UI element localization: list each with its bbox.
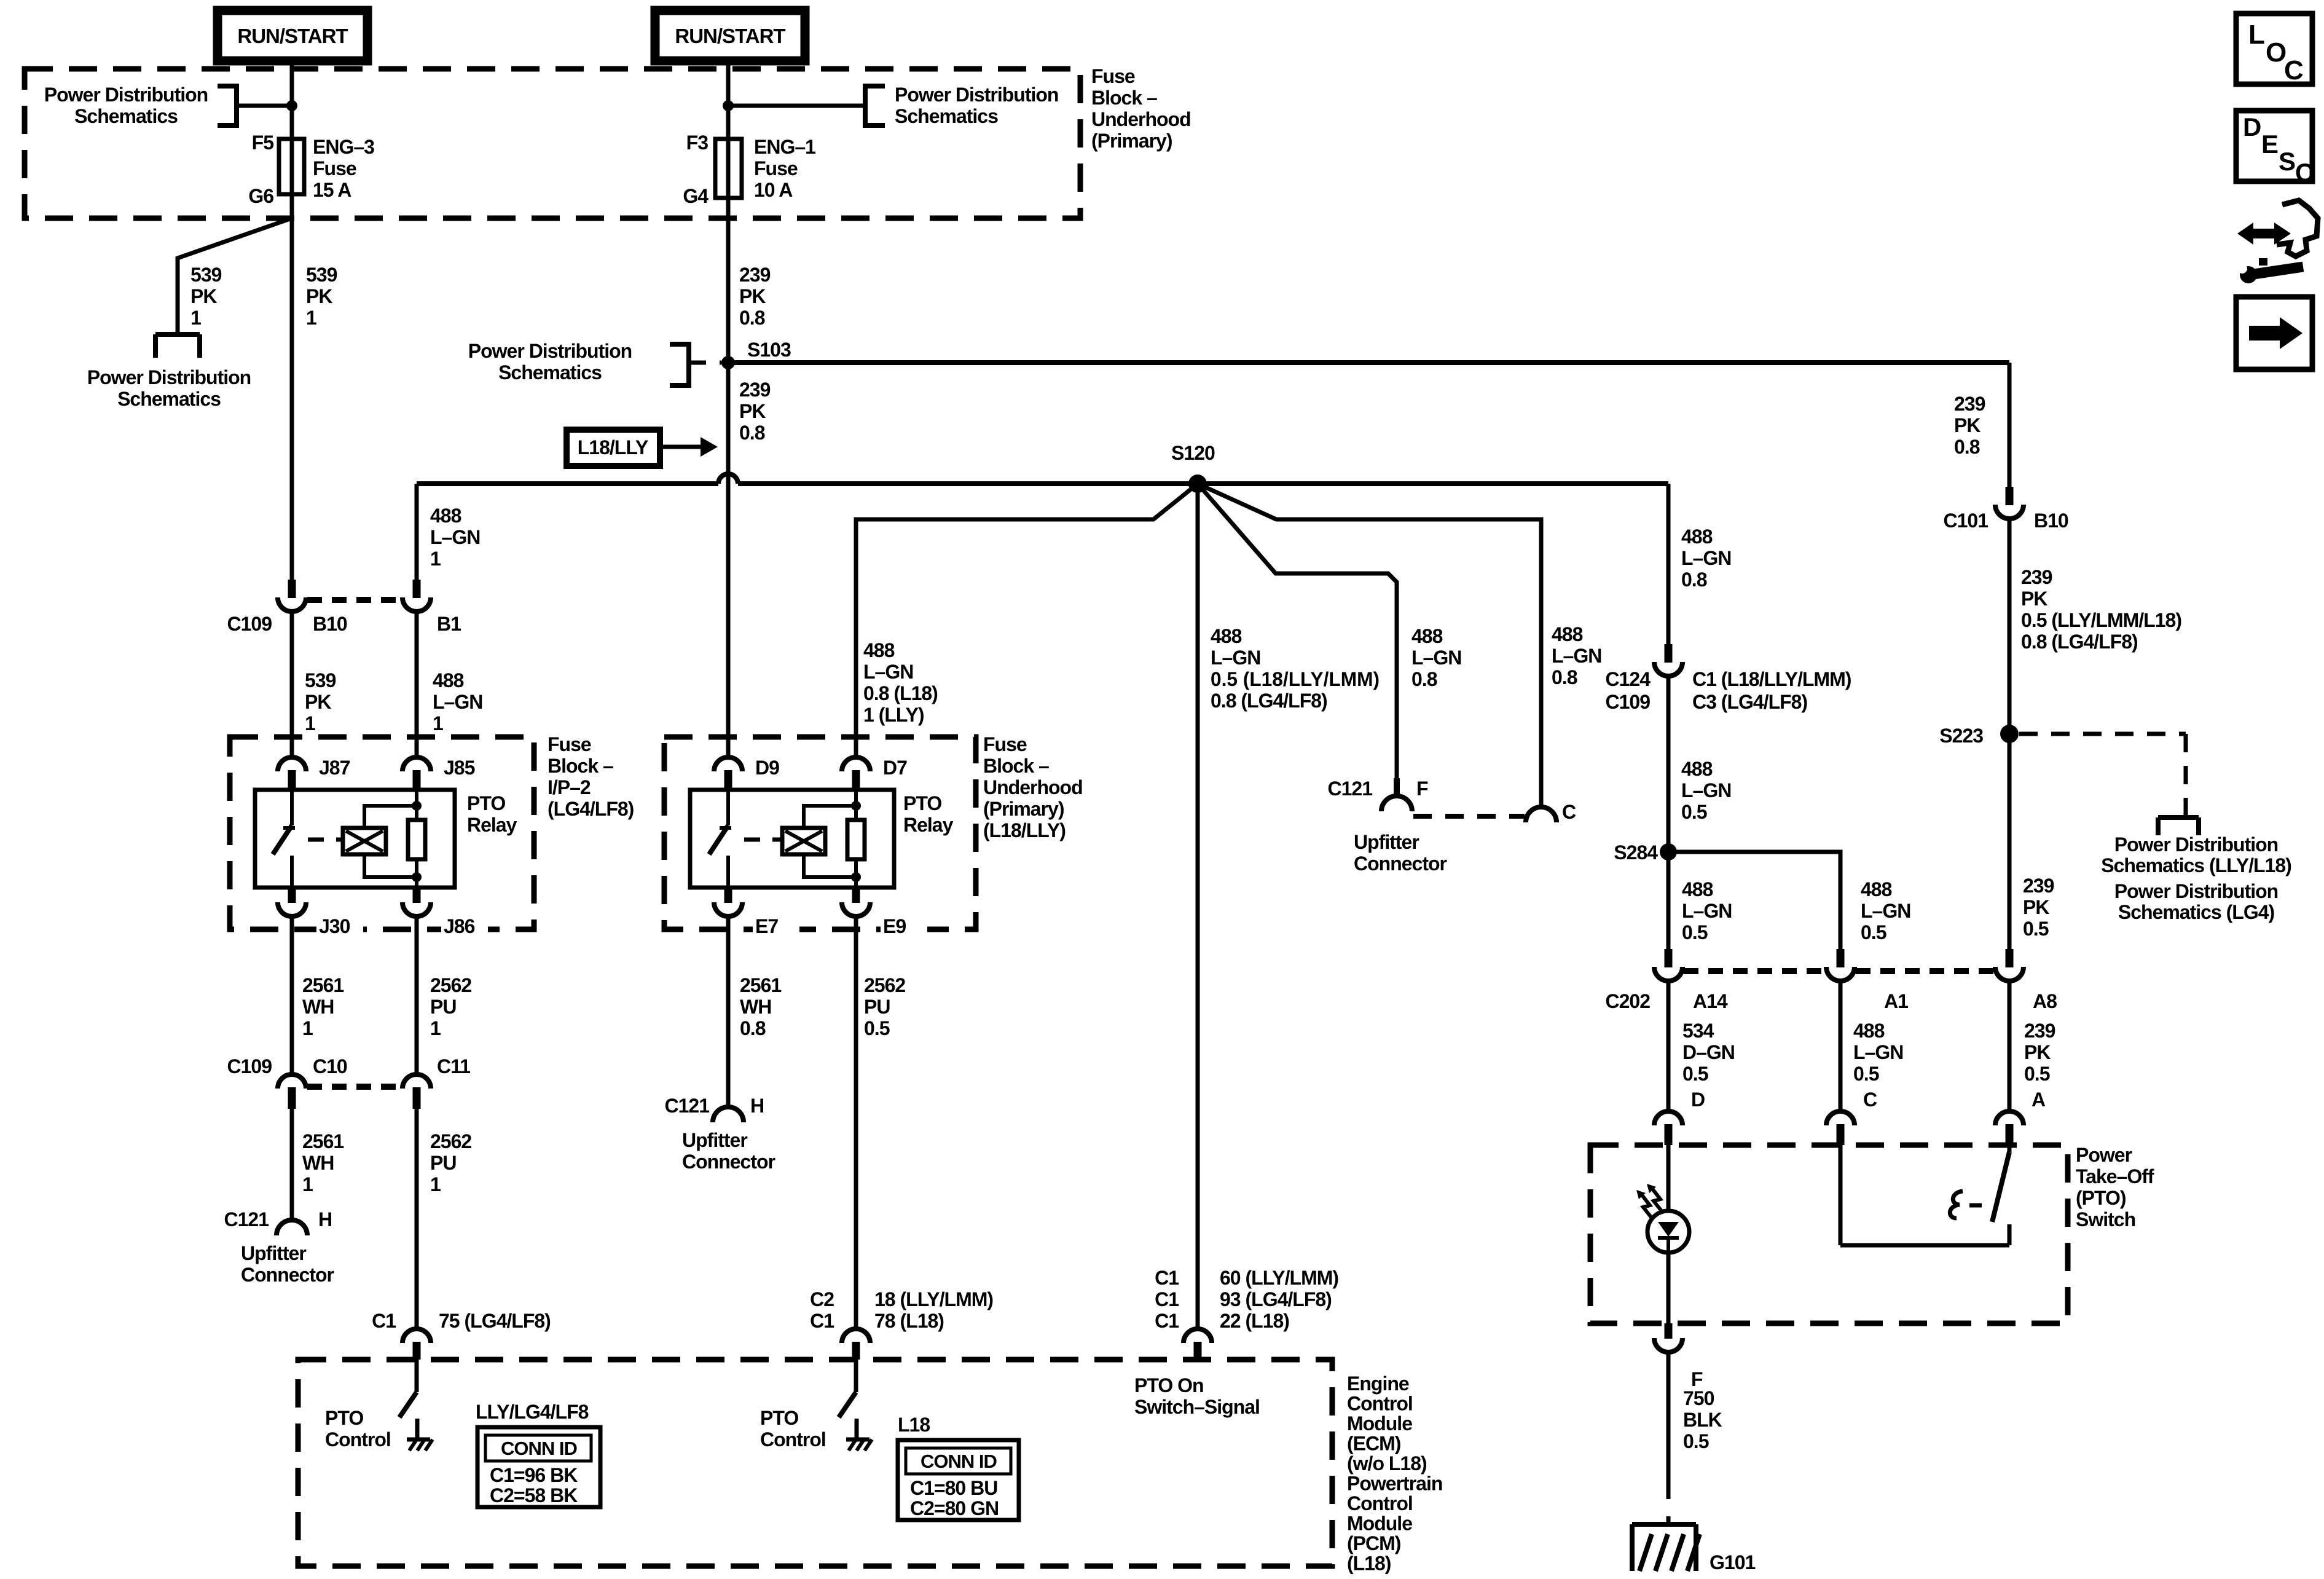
svg-text:J86: J86 bbox=[444, 915, 475, 937]
svg-text:Fuse: Fuse bbox=[983, 733, 1027, 755]
svg-text:1: 1 bbox=[433, 712, 443, 734]
svg-text:1: 1 bbox=[305, 712, 315, 734]
svg-text:0.8: 0.8 bbox=[1411, 668, 1437, 690]
svg-text:L–GN: L–GN bbox=[433, 691, 482, 713]
svg-text:B10: B10 bbox=[313, 613, 347, 635]
svg-text:C1 (L18/LLY/LMM): C1 (L18/LLY/LMM) bbox=[1692, 668, 1851, 690]
svg-text:1 (LLY): 1 (LLY) bbox=[863, 704, 924, 726]
svg-text:C: C bbox=[1863, 1089, 1877, 1111]
svg-text:CONN ID: CONN ID bbox=[501, 1438, 578, 1459]
svg-text:Fuse: Fuse bbox=[548, 733, 591, 755]
svg-text:488: 488 bbox=[1211, 625, 1242, 647]
svg-text:L–GN: L–GN bbox=[1411, 647, 1461, 669]
svg-text:PTO: PTO bbox=[760, 1407, 798, 1429]
svg-text:Fuse: Fuse bbox=[1091, 65, 1135, 87]
svg-text:J85: J85 bbox=[444, 757, 475, 779]
svg-text:239: 239 bbox=[2024, 1020, 2055, 1042]
svg-text:2562: 2562 bbox=[430, 974, 471, 996]
svg-text:L–GN: L–GN bbox=[1861, 900, 1910, 922]
svg-text:Module: Module bbox=[1347, 1513, 1412, 1535]
svg-text:Schematics: Schematics bbox=[498, 361, 602, 384]
svg-text:18 (LLY/LMM): 18 (LLY/LMM) bbox=[874, 1288, 993, 1310]
svg-text:239: 239 bbox=[739, 379, 771, 401]
svg-text:75 (LG4/LF8): 75 (LG4/LF8) bbox=[439, 1310, 551, 1332]
svg-text:1: 1 bbox=[306, 307, 316, 329]
svg-text:488: 488 bbox=[1681, 526, 1713, 548]
svg-text:PK: PK bbox=[2024, 1041, 2051, 1063]
svg-text:PK: PK bbox=[190, 285, 217, 307]
svg-text:Upfitter: Upfitter bbox=[241, 1242, 306, 1264]
svg-text:H: H bbox=[750, 1095, 764, 1117]
svg-text:(PCM): (PCM) bbox=[1347, 1532, 1401, 1554]
svg-text:0.5: 0.5 bbox=[1681, 801, 1707, 823]
svg-text:L–GN: L–GN bbox=[1682, 900, 1732, 922]
svg-text:Control: Control bbox=[760, 1428, 826, 1451]
svg-text:Underhood: Underhood bbox=[1091, 108, 1191, 130]
svg-text:C121: C121 bbox=[1328, 778, 1373, 800]
svg-text:A1: A1 bbox=[1884, 990, 1908, 1012]
svg-text:Take–Off: Take–Off bbox=[2076, 1165, 2154, 1187]
svg-text:L–GN: L–GN bbox=[1681, 547, 1731, 569]
svg-text:PK: PK bbox=[739, 400, 766, 422]
svg-text:PU: PU bbox=[430, 996, 456, 1018]
svg-text:LLY/LG4/LF8: LLY/LG4/LF8 bbox=[476, 1401, 589, 1423]
svg-text:PK: PK bbox=[1954, 414, 1981, 436]
svg-text:C11: C11 bbox=[437, 1055, 470, 1077]
svg-text:S223: S223 bbox=[1939, 725, 1983, 747]
svg-text:(Primary): (Primary) bbox=[1091, 130, 1172, 152]
svg-text:F: F bbox=[1416, 778, 1428, 800]
svg-text:Connector: Connector bbox=[1354, 853, 1447, 875]
svg-text:10 A: 10 A bbox=[754, 179, 793, 201]
svg-text:2562: 2562 bbox=[864, 974, 905, 996]
svg-text:PU: PU bbox=[864, 996, 890, 1018]
svg-text:93 (LG4/LF8): 93 (LG4/LF8) bbox=[1220, 1288, 1332, 1310]
svg-text:Schematics: Schematics bbox=[74, 105, 178, 127]
svg-text:Schematics (LLY/L18): Schematics (LLY/L18) bbox=[2101, 854, 2291, 876]
svg-text:C1=80 BU: C1=80 BU bbox=[910, 1477, 997, 1499]
svg-text:Switch: Switch bbox=[2076, 1208, 2135, 1231]
svg-text:C2=80 GN: C2=80 GN bbox=[910, 1497, 999, 1519]
svg-text:RUN/START: RUN/START bbox=[675, 25, 785, 47]
svg-text:RUN/START: RUN/START bbox=[237, 25, 348, 47]
svg-text:Switch–Signal: Switch–Signal bbox=[1134, 1396, 1260, 1418]
svg-text:C109: C109 bbox=[1606, 691, 1651, 713]
svg-text:CONN ID: CONN ID bbox=[921, 1451, 997, 1472]
svg-text:PU: PU bbox=[430, 1152, 456, 1174]
svg-text:D9: D9 bbox=[755, 757, 779, 779]
svg-text:488: 488 bbox=[1853, 1020, 1885, 1042]
svg-text:488: 488 bbox=[430, 505, 461, 527]
svg-text:2561: 2561 bbox=[740, 974, 781, 996]
svg-text:C1: C1 bbox=[372, 1310, 396, 1332]
svg-text:C1: C1 bbox=[1155, 1267, 1179, 1289]
svg-text:750: 750 bbox=[1683, 1387, 1714, 1409]
svg-text:B10: B10 bbox=[2034, 510, 2068, 532]
svg-text:Relay: Relay bbox=[903, 814, 954, 836]
svg-text:Upfitter: Upfitter bbox=[682, 1129, 747, 1151]
svg-text:Block –: Block – bbox=[548, 755, 613, 777]
svg-text:0.5 (L18/LLY/LMM): 0.5 (L18/LLY/LMM) bbox=[1211, 668, 1380, 690]
svg-text:2562: 2562 bbox=[430, 1130, 471, 1152]
svg-text:(L18): (L18) bbox=[1347, 1553, 1391, 1575]
svg-text:PK: PK bbox=[2023, 896, 2049, 918]
svg-text:534: 534 bbox=[1682, 1020, 1714, 1042]
svg-text:Connector: Connector bbox=[241, 1264, 334, 1286]
svg-text:1: 1 bbox=[302, 1017, 313, 1039]
svg-text:239: 239 bbox=[2021, 566, 2052, 588]
svg-text:L–GN: L–GN bbox=[863, 661, 913, 683]
svg-text:488: 488 bbox=[1681, 758, 1713, 780]
svg-text:488: 488 bbox=[863, 639, 895, 661]
svg-text:G6: G6 bbox=[248, 185, 273, 207]
svg-text:(w/o L18): (w/o L18) bbox=[1347, 1452, 1427, 1475]
svg-text:D–GN: D–GN bbox=[1682, 1041, 1735, 1063]
svg-text:Underhood: Underhood bbox=[983, 776, 1083, 798]
svg-text:PTO On: PTO On bbox=[1134, 1374, 1204, 1396]
svg-text:0.5: 0.5 bbox=[1682, 1063, 1708, 1085]
svg-text:C124: C124 bbox=[1606, 668, 1651, 690]
svg-text:1: 1 bbox=[190, 307, 201, 329]
svg-text:488: 488 bbox=[1682, 878, 1713, 900]
svg-text:G4: G4 bbox=[683, 185, 709, 207]
svg-text:L18/LLY: L18/LLY bbox=[578, 436, 648, 459]
svg-text:I/P–2: I/P–2 bbox=[548, 776, 591, 798]
svg-text:0.5: 0.5 bbox=[1682, 921, 1708, 943]
svg-text:Power: Power bbox=[2076, 1144, 2132, 1166]
svg-text:488: 488 bbox=[1552, 623, 1583, 645]
svg-text:C121: C121 bbox=[665, 1095, 710, 1117]
svg-text:L–GN: L–GN bbox=[1853, 1041, 1903, 1063]
svg-text:Power Distribution: Power Distribution bbox=[895, 84, 1058, 106]
svg-text:Power Distribution: Power Distribution bbox=[2114, 880, 2278, 902]
svg-text:PTO: PTO bbox=[467, 792, 505, 814]
svg-text:L–GN: L–GN bbox=[1552, 645, 1601, 667]
svg-text:C1: C1 bbox=[1155, 1288, 1179, 1310]
svg-text:0.5: 0.5 bbox=[2023, 918, 2049, 940]
svg-text:Upfitter: Upfitter bbox=[1354, 831, 1419, 853]
svg-text:L–GN: L–GN bbox=[1211, 647, 1260, 669]
svg-text:(ECM): (ECM) bbox=[1347, 1433, 1401, 1455]
svg-text:F5: F5 bbox=[252, 132, 274, 154]
svg-text:0.8 (LG4/LF8): 0.8 (LG4/LF8) bbox=[2021, 631, 2138, 653]
svg-text:539: 539 bbox=[305, 669, 336, 691]
svg-text:Powertrain: Powertrain bbox=[1347, 1473, 1442, 1495]
svg-text:S120: S120 bbox=[1171, 442, 1215, 464]
svg-text:0.8: 0.8 bbox=[740, 1017, 766, 1039]
svg-text:Power Distribution: Power Distribution bbox=[87, 366, 251, 388]
svg-text:PK: PK bbox=[306, 285, 332, 307]
svg-text:E7: E7 bbox=[755, 915, 778, 937]
svg-text:C10: C10 bbox=[313, 1055, 347, 1077]
svg-text:60 (LLY/LMM): 60 (LLY/LMM) bbox=[1220, 1267, 1338, 1289]
svg-text:S284: S284 bbox=[1614, 841, 1658, 864]
svg-text:O: O bbox=[2266, 37, 2286, 68]
svg-text:C2=58 BK: C2=58 BK bbox=[490, 1484, 578, 1506]
svg-text:0.8 (LG4/LF8): 0.8 (LG4/LF8) bbox=[1211, 690, 1327, 712]
svg-text:C121: C121 bbox=[224, 1208, 269, 1231]
svg-text:Power Distribution: Power Distribution bbox=[44, 84, 208, 106]
svg-text:0.5: 0.5 bbox=[1861, 921, 1886, 943]
svg-text:Control: Control bbox=[1347, 1393, 1413, 1415]
svg-text:A8: A8 bbox=[2033, 990, 2057, 1012]
svg-text:L: L bbox=[2248, 20, 2264, 50]
svg-text:B1: B1 bbox=[437, 613, 461, 635]
svg-text:E9: E9 bbox=[883, 915, 906, 937]
svg-text:WH: WH bbox=[740, 996, 771, 1018]
svg-text:0.8: 0.8 bbox=[1681, 569, 1707, 591]
svg-text:488: 488 bbox=[1411, 625, 1443, 647]
svg-text:C: C bbox=[1562, 801, 1576, 823]
svg-text:L18: L18 bbox=[898, 1414, 930, 1436]
svg-text:Relay: Relay bbox=[467, 814, 517, 836]
svg-text:0.8: 0.8 bbox=[739, 307, 765, 329]
svg-text:Connector: Connector bbox=[682, 1151, 775, 1173]
svg-text:C3 (LG4/LF8): C3 (LG4/LF8) bbox=[1692, 691, 1807, 713]
svg-text:PK: PK bbox=[739, 285, 766, 307]
svg-text:PK: PK bbox=[2021, 588, 2047, 610]
svg-text:C101: C101 bbox=[1944, 510, 1988, 532]
svg-text:239: 239 bbox=[2023, 875, 2054, 897]
svg-text:D: D bbox=[2243, 112, 2261, 141]
svg-text:0.8: 0.8 bbox=[1552, 666, 1577, 688]
svg-text:C109: C109 bbox=[227, 1055, 272, 1077]
svg-text:L–GN: L–GN bbox=[430, 526, 480, 548]
svg-text:Control: Control bbox=[1347, 1492, 1413, 1514]
svg-text:H: H bbox=[318, 1208, 332, 1231]
svg-text:Block –: Block – bbox=[1091, 87, 1157, 109]
svg-text:0.5: 0.5 bbox=[1683, 1430, 1709, 1452]
svg-text:S103: S103 bbox=[747, 339, 791, 361]
svg-text:Module: Module bbox=[1347, 1412, 1412, 1435]
svg-text:C1=96 BK: C1=96 BK bbox=[490, 1464, 578, 1486]
svg-text:S: S bbox=[2279, 147, 2295, 176]
svg-text:C202: C202 bbox=[1606, 990, 1651, 1012]
svg-text:Fuse: Fuse bbox=[754, 157, 798, 179]
svg-text:Schematics: Schematics bbox=[117, 388, 221, 410]
svg-text:C109: C109 bbox=[227, 613, 272, 635]
svg-text:J30: J30 bbox=[319, 915, 350, 937]
svg-text:1: 1 bbox=[430, 548, 441, 570]
svg-text:BLK: BLK bbox=[1683, 1409, 1722, 1431]
svg-text:WH: WH bbox=[302, 1152, 334, 1174]
svg-text:Engine: Engine bbox=[1347, 1372, 1409, 1395]
svg-text:C: C bbox=[2295, 158, 2314, 187]
svg-text:D7: D7 bbox=[883, 757, 907, 779]
svg-text:2561: 2561 bbox=[302, 974, 343, 996]
svg-text:0.5: 0.5 bbox=[864, 1017, 890, 1039]
svg-text:E: E bbox=[2261, 130, 2278, 159]
svg-text:(Primary): (Primary) bbox=[983, 798, 1064, 820]
svg-text:Control: Control bbox=[325, 1428, 391, 1451]
svg-text:C: C bbox=[2284, 55, 2303, 85]
svg-text:1: 1 bbox=[430, 1017, 441, 1039]
svg-text:Block –: Block – bbox=[983, 755, 1049, 777]
svg-text:ENG–1: ENG–1 bbox=[754, 136, 815, 158]
svg-text:G101: G101 bbox=[1710, 1551, 1755, 1573]
svg-text:Power Distribution: Power Distribution bbox=[468, 340, 632, 362]
svg-text:22 (L18): 22 (L18) bbox=[1220, 1310, 1289, 1332]
svg-text:Fuse: Fuse bbox=[313, 157, 356, 179]
svg-text:D: D bbox=[1691, 1089, 1705, 1111]
svg-text:PTO: PTO bbox=[325, 1407, 363, 1429]
svg-text:Schematics: Schematics bbox=[895, 105, 998, 127]
svg-text:Power Distribution: Power Distribution bbox=[2114, 833, 2278, 856]
svg-text:1: 1 bbox=[430, 1173, 441, 1195]
svg-text:L–GN: L–GN bbox=[1681, 779, 1731, 801]
svg-text:(LG4/LF8): (LG4/LF8) bbox=[548, 798, 634, 820]
svg-text:WH: WH bbox=[302, 996, 334, 1018]
svg-text:0.8: 0.8 bbox=[739, 422, 765, 444]
svg-text:0.8 (L18): 0.8 (L18) bbox=[863, 682, 938, 704]
svg-text:0.5 (LLY/LMM/L18): 0.5 (LLY/LMM/L18) bbox=[2021, 609, 2181, 631]
svg-text:539: 539 bbox=[190, 264, 222, 286]
svg-text:J87: J87 bbox=[319, 757, 350, 779]
svg-text:PK: PK bbox=[305, 691, 331, 713]
svg-text:0.5: 0.5 bbox=[2024, 1063, 2050, 1085]
svg-text:239: 239 bbox=[1954, 393, 1985, 415]
svg-text:539: 539 bbox=[306, 264, 337, 286]
svg-text:C1: C1 bbox=[810, 1310, 834, 1332]
svg-text:1: 1 bbox=[302, 1173, 313, 1195]
svg-text:C2: C2 bbox=[810, 1288, 834, 1310]
svg-text:A: A bbox=[2032, 1089, 2046, 1111]
svg-text:0.5: 0.5 bbox=[1853, 1063, 1879, 1085]
svg-text:239: 239 bbox=[739, 264, 771, 286]
svg-text:(PTO): (PTO) bbox=[2076, 1187, 2126, 1209]
svg-text:F3: F3 bbox=[686, 132, 709, 154]
svg-text:15 A: 15 A bbox=[313, 179, 351, 201]
svg-text:0.8: 0.8 bbox=[1954, 436, 1980, 458]
svg-text:2561: 2561 bbox=[302, 1130, 343, 1152]
svg-text:488: 488 bbox=[1861, 878, 1892, 900]
svg-text:ENG–3: ENG–3 bbox=[313, 136, 374, 158]
svg-text:Schematics (LG4): Schematics (LG4) bbox=[2118, 901, 2275, 923]
svg-text:(L18/LLY): (L18/LLY) bbox=[983, 819, 1066, 841]
svg-text:C1: C1 bbox=[1155, 1310, 1179, 1332]
svg-text:488: 488 bbox=[433, 669, 464, 691]
svg-text:A14: A14 bbox=[1693, 990, 1728, 1012]
svg-text:PTO: PTO bbox=[903, 792, 941, 814]
svg-text:78 (L18): 78 (L18) bbox=[874, 1310, 944, 1332]
